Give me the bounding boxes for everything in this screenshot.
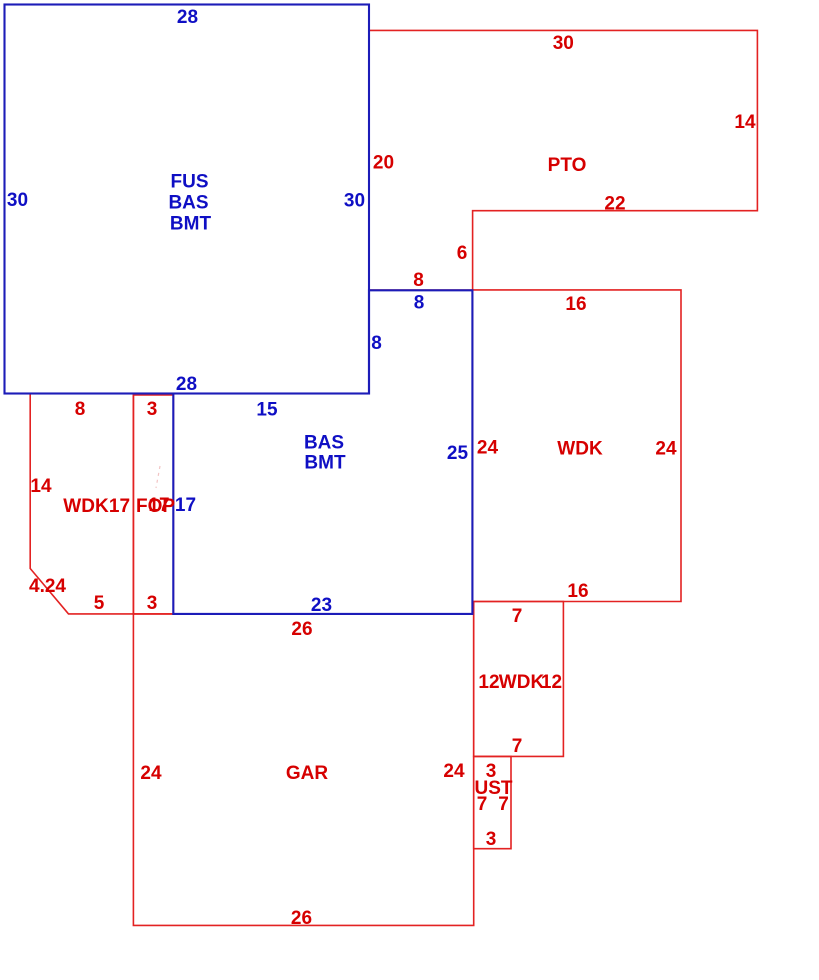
svg-text:30: 30 (553, 33, 574, 54)
svg-text:7: 7 (477, 794, 488, 815)
svg-text:BMT: BMT (304, 453, 346, 474)
svg-text:17: 17 (109, 496, 130, 517)
svg-text:30: 30 (344, 190, 365, 211)
svg-text:15: 15 (256, 400, 278, 421)
svg-text:5: 5 (94, 593, 105, 614)
svg-text:7: 7 (512, 606, 523, 627)
svg-text:12: 12 (478, 672, 499, 693)
svg-text:PTO: PTO (548, 155, 587, 176)
svg-text:24: 24 (477, 438, 499, 459)
area GAR outline (133, 614, 473, 926)
area BAS/BMT outline (173, 290, 472, 614)
svg-text:20: 20 (373, 153, 394, 174)
area WDK small outline (474, 602, 564, 757)
svg-text:16: 16 (567, 581, 588, 602)
svg-text:17: 17 (175, 495, 196, 516)
svg-text:BMT: BMT (170, 214, 212, 235)
svg-text:28: 28 (177, 7, 198, 28)
svg-text:BAS: BAS (304, 433, 344, 454)
svg-text:GAR: GAR (286, 763, 329, 784)
svg-text:8: 8 (371, 333, 382, 354)
svg-text:24: 24 (443, 761, 465, 782)
svg-text:8: 8 (75, 399, 86, 420)
svg-text:26: 26 (291, 619, 312, 640)
svg-text:25: 25 (447, 443, 469, 464)
svg-text:26: 26 (291, 908, 312, 929)
svg-text:7: 7 (498, 794, 509, 815)
svg-text:16: 16 (565, 294, 586, 315)
area UST outline (474, 756, 511, 848)
svg-text:8: 8 (414, 293, 425, 314)
svg-text:14: 14 (734, 112, 756, 133)
svg-text:24: 24 (655, 439, 677, 460)
area WDK left outline (30, 394, 133, 614)
svg-text:BAS: BAS (168, 193, 208, 214)
svg-text:4.24: 4.24 (29, 576, 66, 597)
svg-text:12: 12 (541, 672, 562, 693)
svg-text:8: 8 (413, 270, 424, 291)
svg-text:30: 30 (7, 190, 28, 211)
svg-text:3: 3 (486, 829, 497, 850)
area WDK right outline (473, 290, 681, 602)
svg-text:17: 17 (148, 495, 169, 516)
svg-text:WDK: WDK (63, 496, 109, 517)
svg-text:24: 24 (140, 763, 162, 784)
area FUS/BAS/BMT outline (5, 5, 370, 394)
stray mark above FOP (156, 466, 160, 488)
svg-text:28: 28 (176, 374, 197, 395)
svg-text:FUS: FUS (171, 172, 209, 193)
svg-text:23: 23 (311, 595, 332, 616)
svg-text:3: 3 (147, 593, 158, 614)
svg-text:WDK: WDK (557, 439, 603, 460)
svg-text:3: 3 (147, 399, 158, 420)
svg-text:WDK: WDK (499, 672, 545, 693)
svg-text:14: 14 (30, 476, 52, 497)
svg-text:22: 22 (604, 194, 625, 215)
area PTO outline (369, 30, 757, 290)
svg-text:7: 7 (512, 736, 523, 757)
area FOP outline (133, 395, 173, 614)
svg-text:6: 6 (457, 243, 468, 264)
